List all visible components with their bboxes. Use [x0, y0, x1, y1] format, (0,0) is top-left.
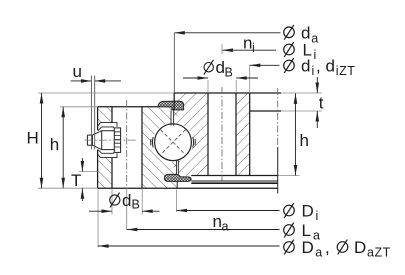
svg-text:D: D [354, 238, 366, 257]
svg-text:u: u [73, 62, 82, 81]
svg-text:a: a [313, 229, 320, 243]
svg-text:a: a [315, 246, 322, 260]
svg-text:B: B [132, 198, 140, 212]
svg-text:i: i [312, 64, 315, 78]
svg-text:a: a [311, 32, 318, 46]
svg-text:h: h [50, 135, 59, 154]
svg-text:T: T [71, 171, 81, 190]
svg-text:D: D [302, 202, 314, 221]
svg-text:,: , [316, 57, 321, 76]
svg-text:,: , [325, 238, 330, 257]
svg-text:D: D [302, 238, 314, 257]
svg-text:d: d [301, 57, 310, 76]
svg-text:iZT: iZT [336, 64, 356, 78]
svg-text:i: i [314, 48, 317, 62]
svg-text:B: B [225, 66, 233, 80]
svg-text:a: a [222, 220, 229, 234]
svg-text:aZT: aZT [367, 246, 391, 260]
svg-text:i: i [316, 209, 319, 223]
svg-text:h: h [300, 131, 309, 150]
svg-text:d: d [326, 57, 335, 76]
svg-text:i: i [252, 41, 255, 55]
svg-text:H: H [27, 129, 39, 148]
svg-text:t: t [319, 94, 324, 113]
svg-text:d: d [122, 191, 131, 210]
